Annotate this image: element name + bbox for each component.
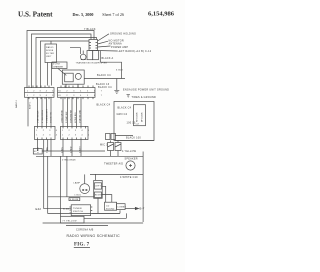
wire under strip mid group — [63, 98, 81, 127]
svg-text:FIG. 7: FIG. 7 — [74, 243, 90, 248]
tall box TB — [94, 180, 103, 198]
wire x43 down to e42 — [43, 156, 45, 208]
svg-text:4 CYLE: 4 CYLE — [53, 64, 61, 66]
component circle mid — [80, 54, 86, 60]
wire horizontal 156 — [36, 155, 143, 157]
box ticks — [89, 43, 98, 49]
wire top nest 4 — [41, 41, 90, 88]
svg-text:1 2 3 4 5: 1 2 3 4 5 — [62, 135, 91, 137]
svg-text:4 BLUE: 4 BLUE — [70, 199, 79, 201]
label box 4blue — [69, 198, 80, 201]
wire top nest 1 — [27, 31, 94, 89]
svg-text:Sheet 7 of 26: Sheet 7 of 26 — [102, 12, 124, 17]
wire BB1 stubs to strip — [66, 84, 78, 88]
arrow b7 — [135, 207, 138, 209]
svg-text:1 BLK: 1 BLK — [37, 147, 39, 153]
box2 pins bottom — [63, 138, 86, 140]
svg-text:2 YELLOW BL: 2 YELLOW BL — [42, 109, 44, 123]
svg-text:1 2 3 4 5: 1 2 3 4 5 — [62, 130, 91, 132]
speaker plus — [129, 164, 132, 167]
connector strip CS right — [58, 88, 96, 98]
small box SB1 — [45, 44, 57, 63]
svg-text:RADIO WIRING SCHEMATIC: RADIO WIRING SCHEMATIC — [67, 234, 121, 238]
box2 pins — [63, 126, 86, 128]
cd box 2 — [117, 204, 126, 210]
wire low mid a — [92, 210, 120, 213]
inner left box — [95, 183, 102, 189]
svg-text:BODY 1: BODY 1 — [30, 101, 32, 109]
wire black100 — [115, 135, 133, 137]
svg-text:BLACK C4: BLACK C4 — [97, 104, 111, 107]
right big box RB — [114, 102, 154, 141]
svg-text:77 YELLOW: 77 YELLOW — [62, 221, 77, 223]
svg-text:COMBO: COMBO — [117, 207, 126, 209]
connector box1 — [35, 126, 56, 139]
wire cd to b7 — [125, 208, 138, 210]
component box mid2 — [93, 51, 99, 60]
leader left radio — [96, 50, 117, 53]
svg-text:100 13: 100 13 — [127, 122, 136, 125]
relay hatch — [108, 141, 122, 157]
svg-text:LAMP: LAMP — [73, 182, 80, 185]
svg-text:4 BLUE YEL: 4 BLUE YEL — [50, 111, 52, 123]
svg-text:1 2 3 4 5 6 7: 1 2 3 4 5 6 7 — [60, 95, 105, 97]
svg-text:LEFT: LEFT — [95, 186, 101, 188]
wire tb feed — [94, 174, 96, 180]
svg-text:SWITCH: SWITCH — [73, 211, 83, 213]
component box mid1 — [87, 51, 93, 60]
svg-text:ENGAUGE POWER UNIT GROUND: ENGAUGE POWER UNIT GROUND — [123, 88, 169, 91]
svg-text:RH DOOR: RH DOOR — [137, 112, 139, 122]
inner box BB1a — [65, 73, 74, 82]
lamp dots — [83, 189, 84, 190]
svg-text:TIRES & GROUND: TIRES & GROUND — [132, 96, 157, 99]
svg-text:CD: CD — [106, 206, 110, 208]
big box BB1 — [62, 70, 84, 84]
svg-text:1 2 3 4 5 6 7: 1 2 3 4 5 6 7 — [60, 90, 105, 92]
leader cig motor — [98, 41, 109, 44]
svg-text:1 2 3 4: 1 2 3 4 — [36, 135, 59, 137]
svg-text:2 GRAY BLK: 2 GRAY BLK — [65, 111, 68, 123]
svg-text:4 YELLOW A/D: 4 YELLOW A/D — [62, 159, 76, 162]
svg-text:POWER AMP: POWER AMP — [111, 46, 128, 49]
wire yellow bottom — [66, 225, 108, 227]
wire tb bottom drop — [97, 198, 99, 213]
wire bottom of speaker box — [90, 173, 143, 175]
box1 pins — [38, 126, 52, 128]
relay upper a — [106, 134, 111, 140]
lamp stub — [84, 174, 86, 183]
svg-text:1 2 3 4: 1 2 3 4 — [36, 130, 59, 132]
svg-text:TUNER: TUNER — [73, 208, 82, 210]
tuner box — [71, 205, 90, 216]
svg-text:TRANSMISSION AMPLIFIER: TRANSMISSION AMPLIFIER — [76, 62, 108, 65]
svg-text:E42: E42 — [36, 207, 42, 211]
svg-text:Dec. 5, 2000: Dec. 5, 2000 — [73, 12, 94, 17]
wire low mid b — [84, 213, 126, 218]
svg-text:UNIT: UNIT — [46, 56, 52, 58]
svg-text:RADIO 1: RADIO 1 — [15, 99, 18, 108]
wire mid top — [70, 48, 80, 54]
svg-text:6,154,986: 6,154,986 — [148, 10, 175, 17]
strip pins above — [29, 86, 93, 88]
strip divider left — [25, 91, 55, 93]
svg-text:1 BLU: 1 BLU — [74, 195, 81, 197]
4cyle leader — [58, 69, 66, 76]
4cyle box — [52, 62, 67, 69]
svg-text:BLAM: BLAM — [63, 208, 70, 211]
svg-text:C-8: C-8 — [136, 124, 140, 126]
svg-text:1 2 3 4 5 6: 1 2 3 4 5 6 — [27, 90, 62, 92]
svg-text:GROUND HOLDING: GROUND HOLDING — [110, 33, 136, 36]
cd box 1 — [105, 202, 117, 210]
wire rb bottom — [115, 140, 154, 142]
svg-text:U.S. Patent: U.S. Patent — [18, 11, 53, 19]
svg-text:1 BLU: 1 BLU — [61, 147, 63, 153]
svg-text:4 WHITE C10: 4 WHITE C10 — [120, 176, 138, 179]
wire top nest 3 — [36, 38, 97, 89]
wire SB1 down a — [47, 63, 49, 86]
svg-text:1 RED WHITE: 1 RED WHITE — [61, 109, 63, 123]
svg-text:CORONA A/B: CORONA A/B — [76, 228, 94, 231]
ground symbol — [114, 90, 119, 93]
svg-text:FILTER: FILTER — [46, 53, 55, 55]
svg-text:BLACK A: BLACK A — [102, 57, 114, 60]
relay upper b — [111, 134, 116, 140]
leader ground holding — [98, 34, 110, 41]
small box wire left low — [33, 149, 42, 154]
wire tb right a — [102, 186, 106, 202]
lamp circle — [80, 184, 90, 194]
svg-text:LEFT RADIO(+12 B) C-12: LEFT RADIO(+12 B) C-12 — [118, 50, 152, 53]
svg-text:3 BROWN WH: 3 BROWN WH — [70, 109, 72, 123]
box1 pins bottom — [38, 138, 52, 140]
wire x47 down — [48, 156, 120, 213]
wire bottom border — [43, 222, 144, 224]
wire black a — [100, 51, 121, 79]
inner door box — [134, 105, 146, 126]
svg-text:2 YEL: 2 YEL — [46, 146, 48, 153]
svg-text:SPEAKER: SPEAKER — [125, 157, 138, 160]
svg-text:MIC 3: MIC 3 — [100, 144, 108, 147]
svg-text:NOISE: NOISE — [46, 50, 54, 52]
strip divider right — [58, 91, 96, 93]
svg-text:RADIO: RADIO — [46, 46, 54, 49]
svg-text:CHARGER: CHARGER — [53, 65, 64, 68]
hatched relay b — [115, 143, 121, 151]
speaker right edge — [142, 152, 144, 223]
svg-text:RIGHT: RIGHT — [95, 195, 103, 197]
svg-text:4 PINK BLU: 4 PINK BLU — [75, 112, 77, 123]
svg-text:5 WHITE GRN: 5 WHITE GRN — [79, 109, 81, 123]
svg-text:B-7: B-7 — [140, 207, 145, 211]
wire below box2 — [63, 140, 81, 157]
ground symbol 2 — [127, 95, 130, 98]
svg-text:3 GREEN WHT: 3 GREEN WHT — [46, 108, 48, 123]
svg-text:TWEETER A/D: TWEETER A/D — [104, 162, 123, 165]
svg-text:4 YELLOW: 4 YELLOW — [122, 150, 137, 153]
connector box2 — [61, 126, 89, 139]
leader power amp — [98, 46, 111, 47]
tuner pins — [70, 207, 93, 213]
speaker circle — [126, 161, 135, 170]
wire left long down — [27, 98, 29, 127]
svg-text:BLACK 100: BLACK 100 — [126, 137, 141, 140]
wire SB1 top stub — [50, 41, 52, 44]
wire x60 down — [59, 156, 61, 216]
box K 77 yellow — [61, 216, 85, 223]
inner right box — [95, 192, 102, 198]
svg-text:7 BLACK: 7 BLACK — [84, 28, 96, 31]
strip pins below — [29, 97, 93, 99]
wire SB1 down b — [51, 63, 53, 86]
svg-text:2 RED: 2 RED — [70, 146, 72, 153]
wire lamp row — [48, 196, 94, 198]
wire below box1 — [38, 140, 52, 157]
wire e42 — [44, 208, 71, 210]
fig7 underline — [74, 247, 90, 249]
svg-text:1 WHITE BLK: 1 WHITE BLK — [37, 110, 39, 123]
wire tb right b — [102, 195, 112, 203]
svg-text:BLACK C4: BLACK C4 — [97, 74, 111, 77]
wire ground drop — [116, 79, 118, 91]
wire black c4 — [84, 78, 125, 80]
hatched relay a — [108, 143, 114, 151]
inner circle BB1b — [75, 73, 81, 79]
svg-text:SOUND: SOUND — [106, 208, 115, 210]
svg-text:6 BLK: 6 BLK — [116, 70, 123, 72]
svg-text:1 2 3 4 5 6: 1 2 3 4 5 6 — [27, 95, 62, 97]
svg-text:BLACK C4: BLACK C4 — [118, 107, 132, 110]
lamp dot2 — [86, 189, 87, 190]
wire top nest 2 — [32, 34, 92, 88]
wire under strip left group — [38, 98, 52, 127]
svg-text:BLACK C4: BLACK C4 — [98, 86, 112, 89]
connector strip CS left — [25, 88, 55, 98]
svg-text:GRN C4: GRN C4 — [117, 113, 128, 116]
wire horizontal 151 — [42, 150, 105, 152]
svg-text:3 WHT: 3 WHT — [79, 146, 81, 153]
component pedestal — [81, 51, 86, 60]
connector box top right — [89, 40, 98, 51]
svg-text:MF DOOR: MF DOOR — [142, 112, 144, 122]
wire x66 down — [66, 156, 68, 197]
